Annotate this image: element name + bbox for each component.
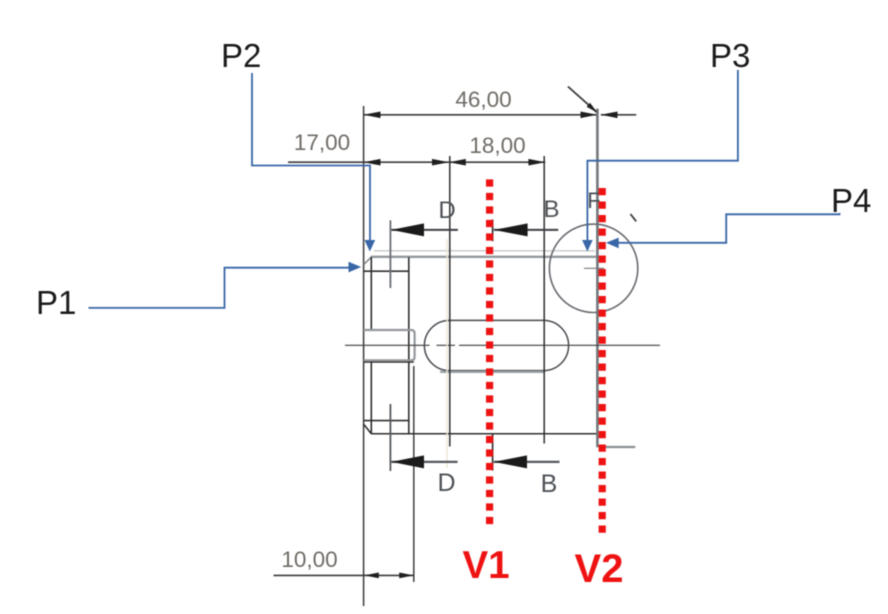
stub shoulder bottom (364, 420, 409, 422)
svg-text:B: B (543, 196, 559, 223)
V2 dotted red line (599, 188, 606, 535)
part top edge (gray) (371, 256, 598, 258)
svg-text:D: D (437, 469, 455, 497)
stub right edge (408, 257, 410, 434)
collar below line (364, 361, 414, 363)
horizontal centerline (345, 344, 660, 346)
stub chamfer top-left (364, 257, 372, 264)
callout P2 (221, 37, 375, 252)
extension line left (long vertical at part left / x=363.6) (363, 106, 365, 606)
dimension 10,00 (274, 547, 414, 578)
callout P3 (582, 37, 750, 252)
stub shoulder top (364, 270, 409, 272)
centerline tick bottom (x=390.4) (389, 404, 391, 471)
svg-text:P3: P3 (710, 37, 750, 74)
part top edge (light tangent line) (374, 250, 595, 252)
section arrow B top (494, 223, 558, 236)
stub chamfer bottom-left (364, 424, 372, 433)
centerline tick top (x=390.4) (389, 220, 391, 288)
svg-text:B: B (541, 470, 558, 498)
section arrow B bottom (494, 455, 560, 468)
dimension 46,00 (364, 87, 637, 118)
section line B (543, 156, 545, 444)
stub left chamfer edge (370, 257, 372, 330)
section arrow D top (391, 223, 458, 236)
stub (threaded boss) (364, 257, 414, 434)
small tick near circle (630, 214, 636, 221)
V1 dotted red line (486, 179, 493, 527)
bottom-right step line (599, 446, 636, 448)
section arrow D bottom (391, 455, 457, 468)
callout P1 (36, 262, 361, 321)
svg-text:18,00: 18,00 (469, 133, 525, 158)
svg-text:P1: P1 (36, 284, 76, 321)
svg-text:V1: V1 (462, 544, 509, 587)
cream highlight line next to D (446, 239, 448, 468)
part bottom edge (371, 433, 596, 435)
collar (gray rounded) (364, 330, 415, 360)
svg-text:D: D (438, 197, 455, 224)
diagonal leader top right (568, 87, 597, 113)
svg-text:P2: P2 (221, 37, 261, 74)
circle center dash (584, 267, 604, 269)
callout P4 (606, 182, 871, 248)
svg-text:10,00: 10,00 (281, 547, 337, 572)
extension line right of stub (10,00 right / x=413.8) (413, 366, 415, 582)
circle (hole top right) (549, 224, 637, 312)
section tick B bottom (492, 434, 494, 471)
slot (stadium obround) (424, 320, 568, 370)
svg-text:17,00: 17,00 (294, 130, 350, 155)
slot bottom gray line (440, 371, 545, 373)
svg-text:V2: V2 (575, 547, 624, 591)
dimension 18,00 (449, 133, 545, 166)
part right edge (gray vertical, up to 46,00 dim) (596, 109, 599, 448)
svg-text:46,00: 46,00 (455, 87, 511, 112)
dimension 17,00 (288, 130, 449, 166)
section tick B top (492, 220, 494, 242)
section line D (449, 156, 451, 447)
